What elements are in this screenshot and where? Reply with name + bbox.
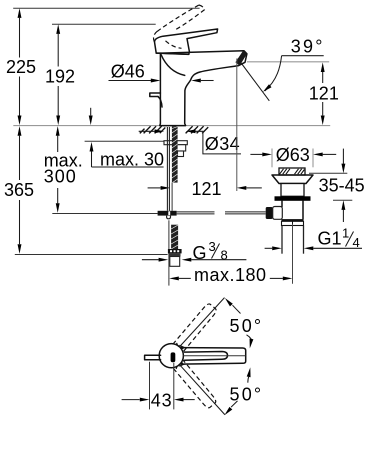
svg-text:50°: 50° [230,385,264,405]
drain body upper [281,184,304,197]
hose tailpiece [170,257,180,267]
pop-up rod lower end hook [167,216,171,219]
top view lever dashed down [172,359,217,409]
angle 50 upper [223,297,263,349]
water stream direction arrow [238,59,269,101]
svg-text:365: 365 [4,180,34,200]
top view knob circle [159,344,183,368]
svg-text:G1: G1 [318,228,342,248]
angle 50 lower [223,367,263,417]
rotation axis line up [180,298,224,347]
spout projection extension line [236,59,238,192]
svg-text:Ø63: Ø63 [276,145,310,165]
dimension D63 [250,145,336,165]
dimension G38 [142,239,247,263]
dimension max300 [44,126,83,213]
svg-text:225: 225 [6,57,36,77]
svg-text:max. 30: max. 30 [100,150,164,170]
dimension 43 [122,362,195,411]
counter hatch right [186,126,209,133]
svg-text:35-45: 35-45 [319,175,365,195]
drain O-ring seal [275,196,311,201]
pop-up lift rod knob [150,93,162,107]
drain bottom white band [282,221,304,225]
dimension 121 vertical [309,62,339,125]
linkage bar right segment [177,212,266,214]
svg-text:Ø46: Ø46 [111,61,145,81]
svg-text:50°: 50° [230,316,264,336]
drain bottom dark band [282,219,304,221]
spout transition curve [161,55,185,76]
drain plug cap [279,168,305,175]
mounting nut [176,145,186,151]
svg-text:43: 43 [151,391,173,411]
top view lever center axis line [183,355,245,357]
svg-text:1: 1 [342,225,349,240]
dimension D46 [109,61,214,82]
dimension max180 [169,265,292,285]
svg-text:8: 8 [221,247,228,262]
top view lever dashed up [173,302,218,352]
top view left stub [145,355,161,359]
svg-text:121: 121 [192,179,222,199]
lever handle dashed (raised) [153,5,204,48]
drain body lower [282,201,303,219]
svg-text:192: 192 [45,66,75,86]
svg-text:300: 300 [44,167,77,187]
rotation axis line down [180,365,225,414]
dimension G114 [265,225,362,250]
drain tailpipe [282,226,304,254]
mounting nut step [178,151,184,157]
flexible hose braided lower [171,225,178,249]
svg-text:39°: 39° [291,36,325,56]
pop-up linkage junction [158,211,177,216]
svg-text:4: 4 [353,235,360,250]
aerator [235,50,247,65]
top view lever solid [181,348,246,365]
dimension 365 [4,126,34,254]
counter top line [13,125,330,127]
max300 bottom reference / pop-up linkage rod left [52,213,157,215]
faucet cap joint line [156,53,189,54]
svg-text:max.180: max.180 [194,265,267,285]
extension line (192 reference) [52,23,156,25]
svg-text:121: 121 [309,84,339,104]
pop-up rod below counter [167,127,169,211]
dimension 121 horizontal [148,179,262,199]
drain extension line right [312,149,314,168]
svg-text:G: G [193,243,207,263]
counter hatch left [140,126,166,133]
hose connector nut G38 [168,249,182,257]
dimension D34 [139,129,241,154]
linkage connector body [273,207,283,220]
mounting washer [164,141,187,145]
hose center line segment [171,183,173,211]
extension line top (225 reference) [13,7,199,9]
top view dark mark [171,352,176,362]
dimension 225 [6,8,36,125]
lever handle solid [155,29,218,54]
drain center line [292,224,294,284]
top view knob-lever fillet arcs [179,345,184,366]
365 bottom reference line [15,254,168,256]
drain extension line left [271,149,273,168]
dimension 192 [45,24,75,125]
39 degree reference underline [282,55,324,57]
linkage drain connector nut [266,207,273,219]
dimension 35-45 [309,149,365,222]
counter underside line [85,140,164,142]
drain flange [272,175,313,184]
faucet body outline [156,51,247,126]
max180 left extension line [168,220,170,285]
flexible hose braided upper [172,126,178,183]
svg-text:Ø34: Ø34 [205,134,240,154]
aerator level gray line [247,61,329,63]
top view lever inner face [185,352,228,361]
dimension max30 [89,108,164,170]
angle 39 arc and arrow [262,36,325,93]
